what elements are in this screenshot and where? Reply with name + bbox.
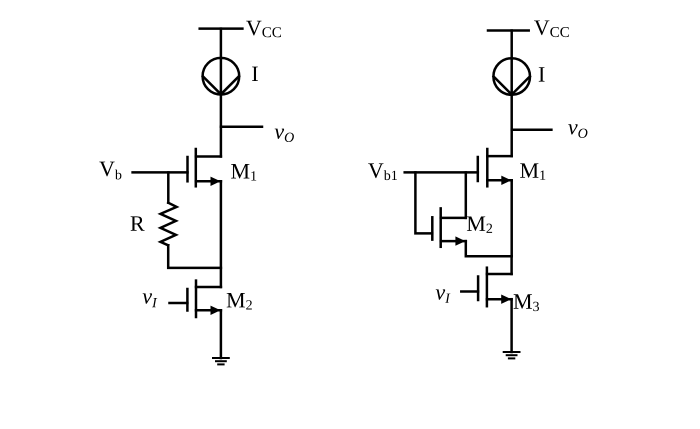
net label vO (left) (275, 129, 294, 142)
wire: junction down to M3 drain (right) (510, 256, 513, 274)
wire: gate lead from Vb (left) (133, 171, 188, 174)
label M1 (left) (231, 164, 256, 180)
net label Vb1 (right) (368, 163, 397, 180)
wire: M2 source down and right to main vertical (right) (466, 241, 512, 256)
node vO wire tap (right) (512, 129, 552, 132)
label M2 (right) (467, 216, 492, 232)
net label vI (left) (143, 293, 158, 307)
wire: resistor tap vertical (left) (167, 172, 170, 202)
wire: current source to M1 drain (right) (510, 95, 513, 156)
value label I (left) (252, 67, 258, 81)
wire: M2 source to ground (left) (220, 310, 223, 358)
wire: gate lead from vI (right) (461, 290, 478, 293)
net label vI (right) (436, 289, 451, 302)
VCC rail (left) (200, 27, 243, 30)
label R (left) (131, 216, 145, 230)
wire: VCC rail to current source (right) (510, 31, 513, 59)
transistor M1 (left) (188, 149, 221, 186)
net label vO (right) (568, 124, 587, 138)
current source I (left) (203, 58, 240, 95)
wire: gate lead from vI (left) (170, 302, 188, 305)
wire: current source to M1 drain (left) (220, 95, 223, 157)
wire: M2 drain up to Vb1 wire (right) (465, 172, 468, 218)
label M1 (right) (520, 163, 545, 179)
ground (right) (504, 352, 520, 358)
wire: VCC rail to current source (left) (220, 29, 223, 59)
net label VCC (left) (246, 21, 281, 38)
label M3 (right) (514, 294, 539, 311)
VCC rail (right) (488, 29, 529, 32)
wire: M3 source to ground (right) (510, 299, 513, 352)
wire: resistor bottom to junction (left) (168, 245, 221, 268)
current source I (right) (493, 58, 530, 95)
value label I (right) (539, 67, 545, 81)
label M2 (left) (227, 293, 252, 310)
net label Vb (left) (99, 162, 121, 180)
transistor M2 (right) (432, 208, 466, 246)
wire: gate lead from Vb1 (right) (405, 171, 478, 174)
transistor M1 (right) (478, 149, 512, 186)
wire: Vb1 tap down to M2 gate (right) (415, 172, 432, 233)
ground (left) (213, 358, 229, 364)
wire: M1 source down to junction (right) (510, 180, 513, 256)
wire: M1 source down to M2 drain (left) (220, 181, 223, 287)
node vO wire tap (left) (221, 125, 262, 128)
transistor M3 (right) (478, 268, 512, 307)
resistor R (161, 203, 177, 246)
transistor M2 (left) (187, 281, 221, 317)
net label VCC (right) (534, 20, 569, 37)
